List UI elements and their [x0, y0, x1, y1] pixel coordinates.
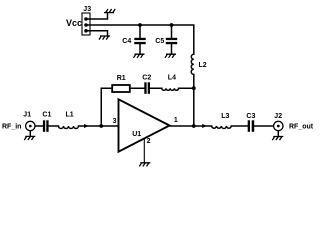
svg-text:RF_out: RF_out: [289, 124, 314, 131]
svg-text:R1: R1: [117, 75, 126, 82]
svg-text:J1: J1: [23, 112, 31, 119]
svg-text:J3: J3: [83, 6, 91, 13]
svg-text:Vcc: Vcc: [66, 18, 82, 28]
svg-text:U1: U1: [132, 131, 141, 138]
svg-text:C3: C3: [246, 113, 255, 120]
svg-text:C5: C5: [155, 38, 164, 45]
svg-text:C4: C4: [122, 38, 131, 45]
svg-text:L4: L4: [168, 75, 176, 82]
svg-text:1: 1: [174, 117, 178, 124]
svg-text:3: 3: [113, 118, 117, 125]
svg-text:2: 2: [147, 138, 151, 145]
svg-text:C1: C1: [42, 112, 51, 119]
svg-text:L3: L3: [221, 113, 229, 120]
svg-text:RF_in: RF_in: [2, 123, 21, 130]
svg-text:J2: J2: [274, 113, 282, 120]
svg-text:L2: L2: [199, 62, 207, 69]
svg-text:C2: C2: [142, 74, 151, 81]
svg-text:L1: L1: [66, 112, 74, 119]
